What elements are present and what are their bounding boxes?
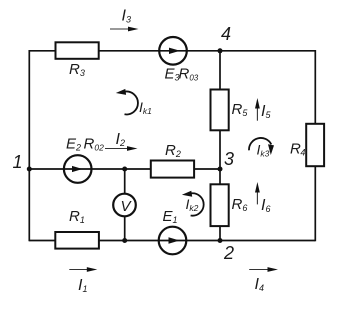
- svg-text:Ik3: Ik3: [257, 142, 270, 159]
- svg-text:E2: E2: [66, 136, 81, 153]
- svg-text:R4: R4: [290, 141, 305, 158]
- resistor R3: [56, 42, 99, 78]
- svg-text:I3: I3: [122, 8, 131, 25]
- resistor R5: [211, 90, 249, 131]
- svg-text:R02: R02: [84, 136, 105, 153]
- svg-text:Ik2: Ik2: [186, 196, 199, 213]
- loop current arrow Ik1: [116, 89, 152, 116]
- junction dot voltmeter top: [122, 167, 127, 172]
- resistor R2: [151, 142, 194, 178]
- voltmeter V: [113, 194, 136, 217]
- svg-text:R3: R3: [69, 61, 85, 78]
- svg-text:I4: I4: [255, 276, 264, 293]
- wire middle horizontal node1 to node3: [29, 168, 220, 170]
- resistor R6: [211, 184, 248, 226]
- svg-text:E1: E1: [163, 208, 178, 225]
- resistor R1: [55, 208, 99, 249]
- svg-text:R5: R5: [232, 101, 249, 118]
- current arrow I1: [69, 267, 97, 294]
- svg-text:R1: R1: [69, 208, 85, 225]
- current arrow I6: [255, 182, 270, 214]
- loop current arrow Ik2: [182, 191, 204, 216]
- wire voltmeter branch: [124, 169, 126, 241]
- wire left: [28, 50, 30, 241]
- svg-text:3: 3: [224, 149, 234, 169]
- svg-text:1: 1: [13, 152, 23, 172]
- wire right: [314, 50, 316, 241]
- svg-text:2: 2: [223, 243, 234, 263]
- svg-text:R03: R03: [179, 66, 199, 83]
- current arrow I4: [249, 267, 278, 293]
- svg-text:I6: I6: [261, 197, 270, 214]
- wire bottom: [29, 240, 315, 242]
- source E1: [159, 208, 187, 254]
- loop current arrow Ik3: [249, 138, 274, 159]
- node 3: [218, 149, 235, 172]
- svg-text:E3: E3: [165, 66, 180, 83]
- svg-text:I1: I1: [78, 277, 87, 294]
- svg-text:R2: R2: [165, 142, 181, 159]
- source E3 with R03: [159, 37, 199, 83]
- current arrow I5: [255, 98, 271, 121]
- current arrow I3: [110, 8, 139, 32]
- svg-text:I5: I5: [261, 103, 271, 120]
- junction dot voltmeter bottom: [122, 238, 127, 243]
- source E2 with R02: [64, 136, 104, 183]
- svg-text:R6: R6: [232, 196, 248, 213]
- current arrow I2: [105, 131, 138, 151]
- svg-text:Ik1: Ik1: [139, 99, 152, 116]
- wire top: [29, 50, 315, 52]
- node 1: [13, 152, 32, 172]
- node 2: [218, 238, 235, 263]
- svg-text:I2: I2: [116, 131, 125, 148]
- resistor R4: [290, 124, 324, 166]
- svg-text:4: 4: [221, 24, 231, 44]
- wire middle vertical node4 to node2: [219, 51, 221, 241]
- node 4: [218, 24, 232, 53]
